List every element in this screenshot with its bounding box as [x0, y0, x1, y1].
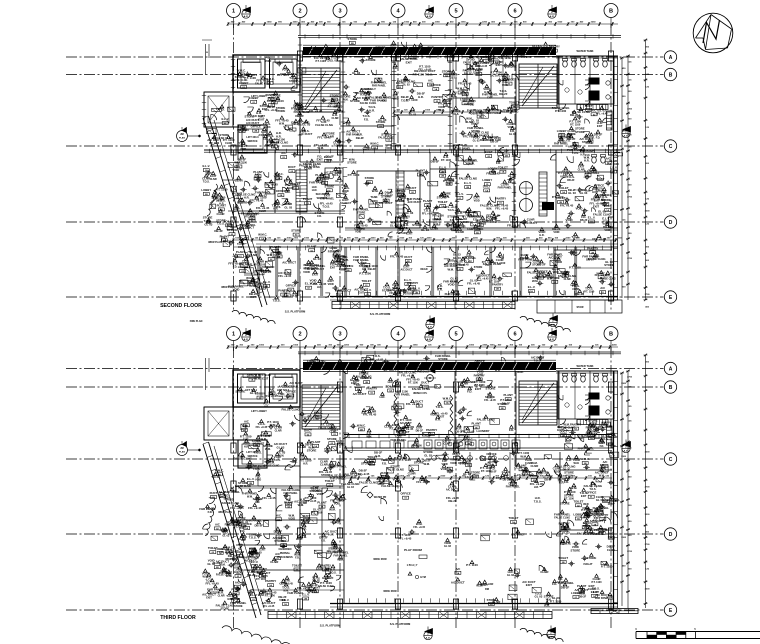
svg-text:FFL +9.45: FFL +9.45	[305, 52, 318, 56]
svg-text:TOILET: TOILET	[558, 556, 568, 560]
svg-text:T.O.S.: T.O.S.	[572, 152, 579, 155]
svg-text:STORE: STORE	[327, 437, 337, 441]
svg-text:A/C DUCT: A/C DUCT	[446, 488, 458, 491]
svg-text:STORE: STORE	[571, 548, 581, 552]
svg-text:VOID: VOID	[232, 168, 239, 172]
left cluster walls	[233, 465, 300, 467]
svg-text:P.T. 1100: P.T. 1100	[408, 381, 419, 384]
svg-text:2B: 2B	[357, 389, 360, 391]
svg-text:W.M.: W.M.	[202, 576, 208, 579]
svg-text:PANTRY: PANTRY	[270, 245, 281, 249]
svg-text:H.R.: H.R.	[369, 108, 375, 112]
svg-text:GL 03: GL 03	[444, 545, 452, 548]
svg-text:CLNR: CLNR	[218, 594, 225, 597]
svg-text:2B: 2B	[445, 105, 448, 107]
svg-text:VOID: VOID	[450, 461, 457, 465]
svg-text:W.M.: W.M.	[448, 267, 455, 271]
svg-text:2B: 2B	[370, 463, 373, 465]
svg-text:STORE: STORE	[330, 94, 340, 98]
svg-text:SERVICE: SERVICE	[247, 141, 258, 143]
fixture row grid C	[344, 447, 612, 449]
svg-text:2B: 2B	[477, 74, 480, 76]
svg-text:6: 6	[513, 332, 516, 338]
svg-text:FHR PANEL: FHR PANEL	[370, 99, 386, 103]
svg-text:OFFICE: OFFICE	[475, 360, 485, 364]
svg-text:2250: 2250	[473, 238, 479, 240]
svg-text:DUCT: DUCT	[404, 255, 412, 259]
svg-text:2B: 2B	[265, 286, 268, 288]
svg-text:A/C DUCT: A/C DUCT	[590, 519, 604, 523]
svg-text:A/C DUCT: A/C DUCT	[240, 226, 254, 230]
svg-text:1050: 1050	[557, 22, 563, 24]
svg-text:EXIT: EXIT	[330, 266, 336, 269]
svg-text:A/C DUCT: A/C DUCT	[383, 369, 397, 373]
svg-text:FALSE CLNG: FALSE CLNG	[581, 436, 597, 439]
svg-text:A/C DUCT: A/C DUCT	[418, 371, 430, 374]
svg-text:2B: 2B	[278, 257, 281, 259]
svg-text:WDW PLAN: WDW PLAN	[208, 241, 222, 244]
svg-text:A/C: A/C	[281, 151, 286, 155]
stair 2	[519, 381, 557, 425]
svg-text:S.S. PLATFORM: S.S. PLATFORM	[285, 310, 306, 314]
section marker	[548, 333, 556, 341]
svg-text:P.T. 1100: P.T. 1100	[555, 109, 567, 113]
svg-text:H.R.: H.R.	[418, 95, 424, 99]
svg-text:CLNR: CLNR	[578, 168, 585, 171]
svg-text:1A: 1A	[269, 584, 272, 587]
svg-text:OFFICE: OFFICE	[343, 264, 353, 268]
svg-text:F.D.: F.D.	[405, 187, 410, 191]
grid line 2 vertical	[299, 24, 301, 312]
lift no.2	[270, 59, 298, 88]
grid line A horizontal	[66, 56, 664, 58]
svg-text:H.R.: H.R.	[328, 533, 334, 537]
svg-text:P.T. 1100: P.T. 1100	[413, 72, 425, 76]
svg-text:STORE: STORE	[291, 229, 301, 233]
north hatched beam	[303, 362, 556, 370]
security desk	[325, 168, 343, 185]
svg-text:WATER TANK: WATER TANK	[577, 364, 594, 368]
svg-text:1A: 1A	[284, 603, 287, 606]
grid bubble E right	[664, 291, 676, 303]
svg-text:FALSE CLNG: FALSE CLNG	[381, 484, 400, 488]
svg-text:T.O.S.: T.O.S.	[322, 205, 330, 209]
svg-text:PLANT: PLANT	[473, 226, 483, 230]
svg-text:2B: 2B	[562, 562, 565, 564]
svg-text:STORE: STORE	[366, 58, 376, 62]
svg-text:DEAD: DEAD	[420, 268, 427, 271]
svg-text:TOILET: TOILET	[438, 200, 448, 204]
svg-text:A/C: A/C	[242, 424, 247, 428]
grid bubble B right	[664, 68, 676, 80]
svg-text:FHR PANEL: FHR PANEL	[372, 85, 387, 88]
svg-text:STORE: STORE	[567, 133, 576, 136]
svg-text:GL 03: GL 03	[568, 191, 576, 195]
svg-text:STORE: STORE	[412, 223, 422, 227]
svg-text:P.T. 1100: P.T. 1100	[457, 220, 469, 224]
svg-text:F.D.: F.D.	[496, 161, 501, 165]
svg-text:W.M.: W.M.	[532, 279, 539, 283]
svg-text:1A: 1A	[475, 426, 478, 429]
svg-text:CLNR: CLNR	[607, 548, 615, 552]
svg-text:STORE: STORE	[234, 605, 243, 608]
svg-text:3300: 3300	[645, 588, 651, 590]
svg-text:LOBBY: LOBBY	[249, 96, 259, 100]
third floor plan	[66, 327, 677, 644]
svg-text:1A: 1A	[314, 445, 317, 448]
svg-text:OFFICE: OFFICE	[586, 491, 596, 495]
svg-text:STORE: STORE	[321, 474, 330, 477]
svg-text:A/C DUCT: A/C DUCT	[340, 202, 352, 205]
svg-text:H.R.: H.R.	[435, 418, 441, 422]
svg-text:1A: 1A	[251, 379, 254, 382]
svg-text:CLNR: CLNR	[564, 278, 571, 281]
svg-text:2B: 2B	[351, 43, 354, 45]
svg-text:H.R.: H.R.	[273, 208, 278, 211]
svg-text:DUCT: DUCT	[485, 150, 493, 154]
svg-text:E.L.V.: E.L.V.	[528, 285, 536, 289]
lift no.2	[270, 374, 298, 403]
lift shaft block	[233, 370, 300, 407]
svg-text:FIRE PLAN: FIRE PLAN	[190, 320, 203, 323]
svg-text:GL 03: GL 03	[207, 562, 215, 566]
svg-text:H.R.: H.R.	[276, 134, 282, 138]
svg-text:STORE: STORE	[325, 184, 335, 188]
svg-text:FFL +9.45: FFL +9.45	[477, 277, 489, 280]
grid bubble 4	[391, 4, 405, 18]
grid bubble C right	[664, 140, 676, 152]
svg-text:PANTRY: PANTRY	[265, 579, 276, 583]
svg-text:STORE: STORE	[252, 439, 262, 443]
svg-text:A/C: A/C	[600, 286, 605, 290]
svg-text:T.O.S.: T.O.S.	[339, 497, 347, 501]
svg-text:E.L.V.: E.L.V.	[591, 590, 599, 594]
svg-text:W.M.C.: W.M.C.	[370, 141, 379, 145]
svg-text:LOBBY: LOBBY	[255, 392, 265, 396]
svg-text:GL 03: GL 03	[330, 60, 338, 63]
svg-text:FALSE CLNG: FALSE CLNG	[412, 387, 431, 391]
svg-text:STORE: STORE	[438, 357, 448, 361]
svg-text:W.M.C.: W.M.C.	[237, 69, 246, 73]
svg-text:P.T. 1100: P.T. 1100	[406, 98, 418, 102]
svg-text:P.T. 1100: P.T. 1100	[410, 51, 421, 54]
mid room partition walls	[274, 150, 276, 213]
svg-text:FFL +9.45: FFL +9.45	[265, 183, 279, 187]
svg-text:A/C DUCT: A/C DUCT	[337, 288, 351, 292]
svg-text:CLNR: CLNR	[320, 463, 328, 467]
svg-text:E.L.V.: E.L.V.	[203, 164, 211, 168]
svg-text:STORE: STORE	[405, 293, 414, 296]
svg-text:T.O.S.: T.O.S.	[249, 536, 257, 540]
svg-text:PANTRY: PANTRY	[366, 387, 377, 391]
svg-text:VOID: VOID	[474, 200, 480, 203]
svg-text:W.M.: W.M.	[219, 563, 226, 567]
svg-text:PLANT: PLANT	[311, 585, 321, 589]
svg-text:2250: 2250	[371, 238, 377, 240]
svg-text:STORE: STORE	[502, 78, 511, 81]
svg-text:1A: 1A	[448, 183, 451, 186]
svg-text:T.O.S.: T.O.S.	[334, 144, 341, 147]
svg-text:3300: 3300	[621, 383, 627, 385]
svg-text:2: 2	[298, 332, 301, 338]
svg-text:1A: 1A	[261, 287, 264, 290]
svg-text:PERNAL: PERNAL	[280, 552, 291, 555]
stair 2	[519, 64, 557, 108]
svg-text:FFL +9.45: FFL +9.45	[401, 374, 414, 378]
svg-text:T.O.S.: T.O.S.	[534, 499, 542, 503]
svg-text:H.R.: H.R.	[303, 462, 308, 465]
svg-text:T.O.S.: T.O.S.	[496, 255, 504, 259]
svg-text:W.M.: W.M.	[300, 535, 307, 539]
svg-text:P.T. 1100: P.T. 1100	[348, 173, 360, 177]
svg-text:T.O.S.: T.O.S.	[330, 571, 337, 574]
svg-text:GL 03: GL 03	[409, 114, 417, 117]
grid line 2 vertical	[299, 347, 301, 628]
svg-text:PLANT: PLANT	[472, 421, 482, 425]
svg-text:OFFICE: OFFICE	[286, 284, 296, 288]
svg-text:DB-2F: DB-2F	[575, 292, 584, 296]
svg-text:VOID: VOID	[442, 463, 448, 466]
svg-text:T.O.S.: T.O.S.	[435, 405, 443, 409]
svg-text:FFL +9.45: FFL +9.45	[486, 172, 500, 176]
svg-text:GL 03: GL 03	[403, 84, 411, 87]
grid line 1 vertical	[233, 347, 235, 628]
svg-text:W.M.: W.M.	[424, 462, 431, 466]
svg-text:PLANT: PLANT	[284, 500, 294, 504]
svg-text:T.O.S.: T.O.S.	[254, 450, 262, 454]
svg-text:PLAN: PLAN	[179, 451, 185, 454]
grid line 1 vertical	[233, 24, 235, 312]
svg-text:DB-2F: DB-2F	[491, 221, 499, 224]
svg-text:TOILET: TOILET	[509, 516, 519, 520]
grid line 5 vertical	[455, 24, 457, 312]
svg-text:F.D.: F.D.	[382, 461, 387, 465]
west duct block	[204, 92, 233, 127]
svg-text:F.D.: F.D.	[226, 573, 231, 577]
svg-text:W.M.: W.M.	[329, 507, 336, 511]
svg-text:1050: 1050	[286, 238, 292, 240]
svg-text:DB-2F: DB-2F	[480, 138, 489, 142]
svg-text:CLNR: CLNR	[430, 227, 439, 231]
section marker	[425, 10, 433, 18]
svg-text:F.D.: F.D.	[465, 476, 470, 479]
svg-text:F.D.: F.D.	[596, 137, 601, 140]
svg-text:VOID: VOID	[303, 270, 310, 274]
room bottoms wall left	[238, 210, 345, 212]
svg-text:STORE: STORE	[357, 212, 366, 215]
svg-text:A/C DUCT: A/C DUCT	[511, 532, 525, 536]
svg-text:2B: 2B	[205, 194, 208, 196]
svg-text:TOILET: TOILET	[573, 499, 583, 503]
svg-text:DB-2F: DB-2F	[214, 229, 223, 233]
svg-text:E.L.V.: E.L.V.	[377, 477, 385, 481]
svg-text:1050: 1050	[440, 476, 446, 478]
svg-text:2M: 2M	[180, 133, 183, 136]
right vertical dimension lines	[621, 373, 623, 606]
svg-text:1A: 1A	[593, 595, 596, 598]
svg-text:CLNR: CLNR	[225, 142, 232, 145]
svg-text:T.O.S.: T.O.S.	[608, 502, 615, 505]
svg-text:2250: 2250	[427, 238, 433, 240]
svg-text:PANTRY: PANTRY	[431, 95, 442, 99]
svg-text:EXIT: EXIT	[274, 179, 280, 182]
lift no.1	[238, 59, 266, 88]
svg-text:T.O.S.: T.O.S.	[203, 181, 210, 184]
svg-text:FFL +9.45: FFL +9.45	[398, 536, 411, 540]
svg-text:2B: 2B	[600, 277, 603, 279]
svg-text:A/C: A/C	[244, 419, 249, 423]
svg-text:H.R.: H.R.	[244, 196, 250, 200]
svg-text:A/C: A/C	[324, 170, 329, 174]
svg-text:A-31: A-31	[427, 338, 433, 341]
revision cloud south big	[222, 626, 301, 644]
grid bubble 2	[293, 4, 307, 18]
window ticks south	[349, 291, 351, 295]
svg-text:DB-2F: DB-2F	[274, 530, 283, 534]
svg-text:W.M.C.: W.M.C.	[443, 397, 452, 401]
grid D wall right	[345, 227, 618, 229]
svg-text:A/C: A/C	[455, 567, 460, 571]
svg-text:FFL +9.45: FFL +9.45	[278, 274, 291, 278]
svg-text:2700: 2700	[627, 551, 633, 553]
svg-text:OFFICE: OFFICE	[395, 189, 405, 193]
grid bubble B	[604, 327, 618, 341]
service shafts (black)	[589, 78, 600, 85]
svg-text:W.M.C.: W.M.C.	[597, 271, 606, 275]
svg-text:3: 3	[338, 332, 341, 338]
svg-text:A/C DUCT: A/C DUCT	[353, 392, 367, 396]
svg-text:W.M.: W.M.	[265, 448, 271, 451]
svg-text:GL 03: GL 03	[335, 179, 343, 183]
revision cloud south	[232, 310, 275, 324]
svg-text:T.O.S.: T.O.S.	[425, 72, 433, 76]
svg-text:EXIT: EXIT	[459, 385, 466, 389]
svg-text:P.T. 1100: P.T. 1100	[216, 188, 228, 192]
svg-text:STORE: STORE	[365, 176, 375, 180]
svg-text:2250: 2250	[591, 22, 597, 24]
svg-text:STORE: STORE	[604, 263, 614, 267]
svg-text:STORE: STORE	[439, 194, 449, 198]
grid line C horizontal	[66, 145, 664, 147]
svg-text:A-31: A-31	[427, 15, 433, 18]
room annotations texture	[276, 423, 280, 426]
svg-text:F.D.: F.D.	[317, 215, 322, 218]
grid line B vertical	[610, 24, 612, 312]
svg-text:TOILET: TOILET	[498, 166, 508, 170]
svg-text:T.O.S.: T.O.S.	[272, 298, 280, 302]
svg-text:FHR PANEL: FHR PANEL	[330, 477, 346, 481]
svg-text:VOID: VOID	[553, 231, 559, 234]
north arrow	[693, 13, 733, 53]
svg-text:FFL +9.45: FFL +9.45	[305, 500, 317, 503]
svg-text:DB-2F: DB-2F	[228, 554, 237, 558]
svg-text:GYM: GYM	[420, 576, 426, 579]
svg-text:LOBBY: LOBBY	[201, 188, 211, 192]
svg-text:VOID: VOID	[392, 98, 398, 101]
svg-text:P.T. 1100: P.T. 1100	[265, 595, 276, 598]
svg-text:WDW. ROW: WDW. ROW	[373, 558, 387, 561]
svg-text:DB-2F: DB-2F	[586, 258, 595, 262]
svg-text:1A: 1A	[446, 402, 449, 405]
svg-text:W.M.C.: W.M.C.	[357, 423, 366, 427]
svg-text:STORE: STORE	[211, 591, 220, 594]
svg-text:VOID: VOID	[575, 207, 582, 211]
svg-text:A/C DUCT: A/C DUCT	[299, 132, 313, 136]
svg-text:2B: 2B	[415, 292, 418, 294]
svg-text:T.O.S.: T.O.S.	[452, 113, 459, 116]
svg-text:DB-2F: DB-2F	[448, 499, 457, 503]
svg-text:F.D.: F.D.	[566, 140, 571, 143]
svg-text:3300: 3300	[645, 451, 651, 453]
svg-text:E.L.V.: E.L.V.	[439, 165, 447, 169]
svg-text:DB-2F: DB-2F	[502, 401, 511, 405]
svg-text:EXIT: EXIT	[481, 583, 488, 587]
svg-text:E.L.V.: E.L.V.	[221, 117, 229, 121]
svg-text:FFL +9.45: FFL +9.45	[264, 394, 278, 398]
svg-text:A/C DUCT: A/C DUCT	[408, 200, 422, 204]
svg-text:P.T. 1100: P.T. 1100	[564, 490, 576, 494]
svg-text:2250: 2250	[565, 238, 571, 240]
svg-text:STORE: STORE	[348, 37, 358, 41]
svg-text:VOID: VOID	[598, 440, 605, 444]
svg-text:1050: 1050	[425, 110, 431, 112]
svg-text:A/C: A/C	[603, 460, 608, 464]
svg-text:1A: 1A	[220, 208, 223, 211]
lift no.1	[238, 374, 266, 403]
svg-text:H.R.: H.R.	[451, 94, 457, 98]
grid line 4 vertical	[397, 347, 399, 628]
svg-text:STORE: STORE	[588, 419, 598, 423]
svg-text:STORE: STORE	[560, 502, 570, 506]
svg-text:FFL +9.45: FFL +9.45	[250, 199, 264, 203]
svg-text:2B: 2B	[478, 366, 481, 368]
corridor partitions	[469, 452, 471, 480]
svg-text:H.R.: H.R.	[380, 395, 386, 399]
svg-text:2B: 2B	[441, 171, 444, 173]
svg-text:1A: 1A	[562, 191, 565, 194]
svg-text:EXIT: EXIT	[598, 530, 605, 534]
grid bubble 1	[227, 327, 241, 341]
svg-text:STORE: STORE	[267, 99, 277, 103]
svg-text:F.D.: F.D.	[560, 542, 565, 546]
svg-text:2B: 2B	[365, 382, 368, 384]
svg-text:FALSE CLNG: FALSE CLNG	[318, 585, 334, 588]
svg-text:STORE: STORE	[532, 264, 541, 267]
toilet block north-east	[558, 56, 614, 104]
svg-text:2M: 2M	[180, 447, 183, 450]
svg-text:E.L.V.: E.L.V.	[404, 278, 412, 282]
svg-text:3: 3	[338, 9, 341, 15]
svg-text:CLNR: CLNR	[326, 135, 334, 139]
svg-text:VOID: VOID	[288, 517, 295, 521]
svg-text:STORE: STORE	[237, 201, 247, 205]
svg-text:2250: 2250	[452, 238, 458, 240]
svg-text:P.T. 1100: P.T. 1100	[311, 511, 323, 515]
section marker	[242, 333, 250, 341]
grid line E horizontal	[66, 609, 664, 611]
svg-text:W.M.: W.M.	[486, 208, 492, 211]
svg-text:GL 03: GL 03	[322, 51, 330, 54]
svg-text:FFL +9.45: FFL +9.45	[390, 255, 404, 259]
svg-text:FALSE CLNG: FALSE CLNG	[356, 376, 372, 379]
svg-text:DB-2F: DB-2F	[490, 139, 499, 143]
svg-text:STORE: STORE	[276, 109, 286, 113]
svg-text:H.R.: H.R.	[312, 188, 318, 192]
svg-text:F.D.: F.D.	[240, 529, 245, 533]
svg-text:2700: 2700	[627, 377, 633, 379]
section markers below plan	[424, 631, 432, 639]
svg-text:W.M.: W.M.	[565, 542, 572, 546]
